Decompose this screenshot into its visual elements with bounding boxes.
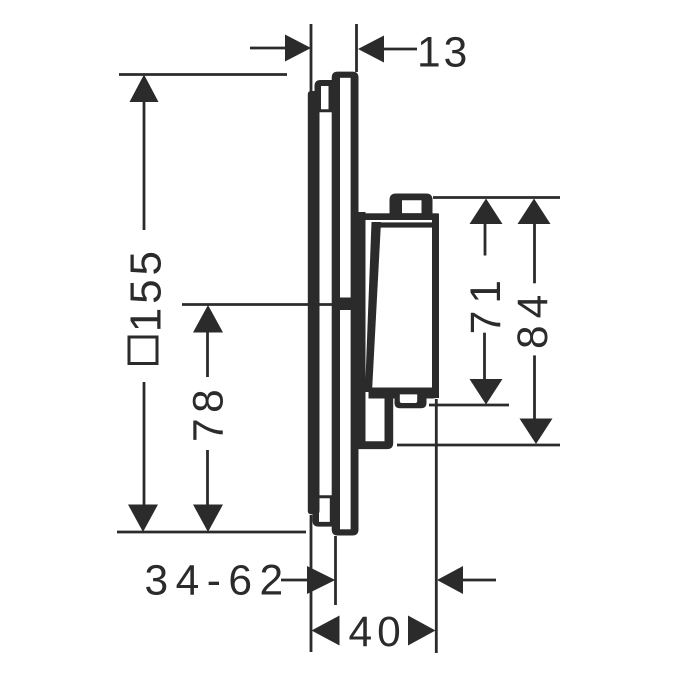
svg-text:40: 40 — [349, 609, 406, 656]
dim 34-62 tail right — [463, 579, 496, 582]
arrow 155 bottom — [128, 505, 158, 533]
dim 13 extension line right — [355, 24, 358, 72]
dim 78 extension line center — [182, 303, 333, 306]
escutcheon plate outer — [332, 72, 359, 536]
arrow 155 top — [130, 75, 159, 103]
cartridge stem block — [340, 298, 352, 311]
dim 40 extension line right — [435, 399, 438, 653]
bottom knob inner face — [400, 394, 417, 403]
top knob — [390, 194, 433, 216]
label square-155 square symbol — [129, 337, 157, 364]
valve left wall — [365, 222, 381, 392]
arrow 13 left — [285, 35, 311, 62]
arrow 84 top — [518, 199, 551, 225]
dim 155 line upper — [143, 100, 146, 230]
svg-text:71: 71 — [463, 273, 510, 334]
arrow 34-62 left-pointing — [437, 566, 463, 594]
arrow 78 bottom — [193, 505, 223, 533]
escutcheon plate right wall bulge — [350, 212, 366, 449]
svg-text:84: 84 — [510, 288, 557, 349]
valve right wall — [432, 214, 439, 398]
rear mounting plate bar — [308, 91, 320, 514]
svg-text:34-62: 34-62 — [145, 558, 291, 605]
dim 13 tail right — [384, 48, 417, 51]
dim 71 line lower — [483, 333, 486, 380]
dim 78 line upper — [206, 329, 209, 377]
svg-text:155: 155 — [122, 247, 171, 332]
arrow 34-62 right-pointing — [307, 566, 335, 594]
escutcheon plate inner face — [340, 78, 351, 530]
lower supply step — [352, 390, 393, 449]
dim 71-84 extension line top — [433, 196, 560, 199]
dim 84 line upper — [533, 222, 536, 283]
arrow 78 top — [193, 305, 223, 333]
bottom knob — [395, 388, 427, 408]
dim 155 extension line top — [119, 73, 287, 76]
top collar — [315, 80, 334, 112]
dim 34-62 extension line left — [310, 515, 313, 652]
dim 34-62 tail left — [281, 579, 309, 582]
dim 13 tail left — [250, 47, 287, 50]
arrow 40 right-pointing — [408, 616, 436, 646]
bottom collar — [313, 495, 334, 526]
dim 71 extension line bottom — [429, 404, 509, 407]
svg-text:78: 78 — [186, 384, 233, 442]
arrow 71 top — [470, 199, 503, 225]
dim 13 extension line left — [310, 24, 313, 92]
valve bottom band — [369, 388, 439, 399]
arrow 84 bottom — [520, 419, 553, 445]
svg-text:13: 13 — [417, 30, 470, 77]
valve inner top line — [374, 222, 439, 227]
valve top band — [361, 213, 439, 220]
dim 155 extension line bottom — [117, 531, 306, 534]
arrow 13 right — [358, 36, 384, 63]
dim 84 line lower — [533, 355, 536, 419]
dim 78 line lower — [206, 450, 209, 509]
dim 84 extension line bottom — [397, 444, 560, 447]
arrow 40 left-pointing — [312, 616, 340, 646]
dim 71 line upper — [484, 222, 487, 256]
arrow 71 bottom — [470, 379, 503, 405]
dim 155 line lower — [143, 382, 146, 509]
dim 34-62 extension line right — [334, 536, 337, 605]
